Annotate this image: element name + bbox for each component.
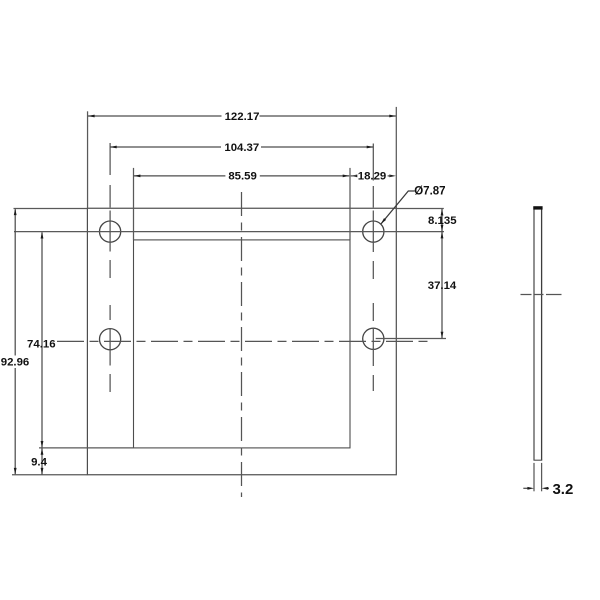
dimension 85.59 arrowheads (134, 175, 349, 178)
centerline horizontal part axis (57, 340, 430, 342)
dimension 37.14 arrowheads (441, 232, 444, 338)
centerline hole column left (109, 143, 111, 392)
side view centerline (521, 294, 562, 296)
extension line top hole row (14, 231, 444, 233)
dimension 92.96 arrowheads (14, 209, 17, 475)
dimension 92.96 line (14, 209, 16, 474)
svg-text:74.16: 74.16 (27, 338, 56, 350)
dimension 104.37 arrowheads (110, 146, 373, 149)
dimension 9.4 arrowheads (41, 448, 44, 474)
svg-text:37.14: 37.14 (428, 280, 457, 292)
svg-text:3.2: 3.2 (552, 481, 573, 498)
hole top-left (100, 221, 121, 242)
dimension 74.16 line (41, 232, 43, 447)
dimension 8.135 and 37.14 shared line (441, 209, 443, 338)
dimension 74.16 arrowheads (41, 232, 44, 448)
svg-text:92.96: 92.96 (1, 357, 30, 369)
dimension 122.17 line (88, 115, 396, 117)
hole bottom-right (363, 328, 384, 349)
plate outer outline (87, 208, 396, 475)
extension line bottom hole row right (376, 338, 446, 340)
extension line inner right edge upward (349, 168, 351, 240)
centerline hole column right (372, 144, 374, 392)
side view bottom edge (534, 459, 543, 461)
dimension 9.4 line (41, 448, 43, 474)
extension line outer right edge upward (395, 107, 397, 208)
dimension 8.135 arrowheads (441, 209, 444, 232)
extension line outer left edge upward (87, 111, 89, 208)
extension line bottom edge left (12, 474, 87, 476)
extension line inner bottom left (39, 447, 134, 449)
side view left edge (533, 207, 535, 461)
svg-text:85.59: 85.59 (228, 171, 257, 183)
dimension 3.2 arrowheads (527, 487, 548, 490)
hole bottom-left (100, 329, 121, 350)
dimension 3.2 lines (523, 487, 549, 489)
dimension 3.2 extension lines (534, 463, 542, 491)
leader arrowhead (381, 218, 386, 224)
side view top cap (533, 206, 542, 209)
hole top-right (363, 221, 384, 242)
side view right edge (541, 207, 543, 461)
svg-text:8.135: 8.135 (428, 215, 457, 227)
dimension 18.29 arrowheads and line (351, 175, 396, 178)
svg-text:104.37: 104.37 (224, 142, 259, 154)
svg-text:9.4: 9.4 (31, 456, 47, 468)
dimension 122.17 arrowheads (88, 115, 396, 118)
svg-text:18.29: 18.29 (358, 171, 387, 183)
svg-text:Ø7.87: Ø7.87 (414, 185, 445, 197)
extension line top edge (left and right of plate) (14, 207, 444, 209)
leader line for hole diameter (381, 191, 415, 224)
extension line inner left edge upward (133, 168, 135, 240)
svg-text:122.17: 122.17 (225, 111, 260, 123)
plate inner cutout outline (134, 240, 351, 448)
centerline vertical part axis (241, 192, 243, 497)
dimension 104.37 line (110, 146, 373, 148)
dimension 85.59 line (134, 175, 349, 177)
